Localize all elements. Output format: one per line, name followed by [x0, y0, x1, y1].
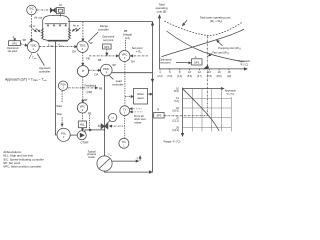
svg-text:18: 18	[228, 70, 231, 74]
chart1 curve fan cost W1	[167, 31, 245, 62]
svg-text:Air out: Air out	[34, 16, 42, 20]
svg-text:DA: DA	[72, 50, 76, 54]
box SP1 optimized range set point	[102, 35, 115, 49]
svg-text:FB: FB	[88, 111, 92, 115]
chart1 label Total tower operating cost with leader	[183, 16, 231, 26]
svg-text:VPC: VPC	[80, 105, 86, 109]
controller TDIC-1 (approach controller)	[23, 38, 40, 53]
label Load controller with leader	[109, 75, 124, 86]
svg-text:DA: DA	[95, 73, 99, 77]
wire SIC to fan motor (dash-dot)	[37, 9, 51, 11]
pipe basin downcomer	[56, 42, 58, 135]
relay P	[77, 66, 88, 77]
svg-text:(4.4): (4.4)	[177, 75, 182, 78]
wire TY to TIC (dashed)	[124, 116, 126, 138]
svg-text:CY: CY	[111, 118, 115, 120]
svg-text:16: 16	[218, 70, 221, 74]
wire SP1 box down to VPC line (dashed arrow)	[106, 49, 108, 55]
pipe header PDIC to riser	[112, 72, 152, 74]
svg-text:Load: Load	[116, 79, 122, 83]
junction node on feedback crossing	[82, 87, 83, 88]
svg-text:1: 1	[124, 113, 126, 115]
chart1 y-axis Total operating cost	[155, 3, 167, 69]
label Range controller with leader	[88, 24, 109, 42]
box SP1 optimized approach set point	[7, 35, 21, 53]
label abbreviations	[3, 150, 44, 169]
svg-text:CTWP: CTWP	[81, 141, 89, 145]
svg-text:Stop: Stop	[57, 112, 63, 116]
svg-text:FB: FB	[98, 58, 102, 62]
svg-text:TDIC: TDIC	[30, 43, 36, 47]
svg-text:controller: controller	[39, 69, 50, 73]
svg-text:VPC: Valve position controller: VPC: Valve position controller	[3, 165, 41, 169]
svg-text:(14.4): (14.4)	[172, 129, 179, 132]
chart1 tick marks and labels	[158, 69, 232, 78]
svg-text:2: 2	[63, 137, 65, 139]
svg-text:10: 10	[188, 70, 191, 74]
svg-text:set point: set point	[103, 38, 113, 42]
svg-text:TIC: TIC	[122, 140, 126, 144]
wire HLL to pump (dashed arrow)	[82, 128, 84, 131]
pipe PSL to pump to supply riser	[70, 129, 104, 135]
svg-text:PB: PB	[124, 29, 128, 33]
label Approach controller with leader	[37, 54, 51, 74]
svg-text:FB: FB	[99, 87, 103, 91]
svg-text:FB: FB	[86, 56, 90, 60]
svg-text:°F (°C): °F (°C)	[226, 92, 234, 96]
wire SP1 box to TDIC-1 (dash-dot)	[21, 44, 27, 46]
svg-text:controller: controller	[112, 82, 123, 86]
svg-text:users: users	[137, 96, 144, 100]
svg-text:14: 14	[208, 70, 211, 74]
svg-text:4: 4	[159, 70, 161, 74]
chart2 y-axis Range	[181, 88, 183, 137]
chart2 y tick labels	[172, 87, 179, 132]
relay TY (high selector)	[120, 106, 130, 116]
svg-text:Integral: Integral	[123, 33, 132, 37]
svg-text:A: A	[195, 55, 197, 59]
wire PSh start/stop down to pump (dashed)	[56, 91, 63, 126]
wire return pipe to TDIC-2 SP (dashed)	[82, 22, 84, 40]
controller SIC-1 (fan speed)	[27, 5, 37, 15]
label Air in (left) with arrows	[29, 24, 40, 32]
pump CTWP	[77, 131, 88, 145]
box SP1 on chart1 axis	[192, 55, 203, 65]
wire TDIC-1 to TDIC-2 (dash-dot)	[39, 46, 76, 48]
tower basin	[43, 39, 69, 41]
svg-text:SP: SP	[112, 63, 116, 67]
pipe HX outlet to process (arrow T)	[112, 156, 141, 162]
pipe hot water return (tower top to riser)	[68, 22, 153, 173]
valve V1 (user cooling valve, FC)	[98, 124, 108, 129]
svg-text:controller: controller	[98, 27, 109, 31]
fan motor M	[57, 3, 65, 17]
svg-text:(OR): (OR)	[87, 90, 93, 94]
svg-text:Twb: Twb	[32, 56, 37, 60]
limiter HLL	[78, 121, 86, 128]
svg-text:1: 1	[123, 145, 125, 147]
chart1 curve pumping cost W2	[162, 29, 245, 57]
louvers right wall	[68, 29, 71, 39]
svg-text:R: R	[157, 108, 159, 112]
svg-text:Total tower operating cost: Total tower operating cost	[200, 16, 231, 20]
svg-text:Feedback: Feedback	[85, 83, 97, 87]
svg-text:6: 6	[169, 70, 171, 74]
wire VPC-2 to HLL (dashed)	[82, 113, 84, 121]
svg-text:(2.2): (2.2)	[158, 75, 163, 78]
svg-text:Optimized: Optimized	[159, 57, 172, 61]
pipe supply riser with valve	[104, 76, 106, 156]
wire P to PDIC (dash-dot)	[89, 69, 101, 71]
svg-text:°F (°C): °F (°C)	[240, 62, 248, 66]
svg-text:P: P	[82, 69, 84, 73]
controller TIC	[119, 138, 129, 148]
svg-text:1: 1	[33, 48, 35, 51]
svg-text:1: 1	[106, 71, 108, 74]
svg-text:SP1: SP1	[104, 45, 110, 49]
wire SIC down to TDIC-1 (dashed)	[30, 15, 32, 40]
svg-text:(6.7): (6.7)	[197, 75, 202, 78]
svg-text:SP: SP	[23, 38, 27, 42]
svg-text:(8.9): (8.9)	[217, 75, 222, 78]
box Other users	[134, 89, 153, 105]
svg-text:M: M	[59, 3, 62, 7]
wire valve signal (dash-dot to actuator)	[110, 125, 125, 127]
chart1 label Optimized set point with arrow to SP1	[159, 57, 191, 64]
svg-text:Approach (ΔT) = Tctws − Twb: Approach (ΔT) = Tctws − Twb	[5, 77, 47, 82]
svg-text:SP3: SP3	[156, 114, 161, 118]
svg-text:only: only	[125, 36, 131, 40]
svg-text:(5.6): (5.6)	[174, 90, 179, 93]
label From all other user valves with dotted wires	[130, 108, 146, 125]
svg-text:(W1 + W2): (W1 + W2)	[210, 19, 222, 24]
cooling tower shell	[43, 15, 69, 39]
junction node pump discharge tee	[104, 129, 105, 130]
flow arrow at bottom corner	[149, 171, 152, 173]
svg-text:Range: Range	[100, 24, 108, 28]
fan F1 (propeller)	[50, 8, 55, 12]
controller VPC-1	[119, 51, 135, 64]
svg-text:Fan cost (W1): Fan cost (W1)	[212, 50, 229, 55]
chart1 x-axis Approach	[160, 59, 251, 70]
controller VPC-2 (pump speed)	[77, 103, 91, 130]
svg-text:12: 12	[198, 70, 201, 74]
svg-text:PSh: PSh	[61, 83, 66, 87]
svg-text:2: 2	[62, 88, 64, 90]
svg-text:Tin: Tin	[108, 153, 111, 157]
svg-text:Tctwr: Tctwr	[58, 44, 63, 48]
svg-text:SP: SP	[84, 98, 88, 102]
chart1 curve total cost dashed U	[165, 21, 244, 35]
wire TDIC-2 to P relay (dashed)	[82, 53, 84, 66]
svg-text:2: 2	[82, 48, 84, 51]
controller PDIC (load controller)	[95, 63, 117, 77]
valve actuator CY	[106, 113, 117, 124]
label Air in (right) with arrows	[73, 23, 81, 31]
wire Twb input (dash-dot diagonal)	[29, 54, 37, 60]
heat exchanger HX (typical process cooler)	[97, 153, 112, 171]
svg-text:SP: SP	[89, 41, 93, 45]
label Typical process cooler	[87, 149, 97, 159]
svg-text:(10): (10)	[227, 75, 231, 78]
wire branch to Other users box (dash-dot arrow)	[125, 96, 133, 98]
wire PSh feedback to load loop (dash-dot)	[68, 83, 103, 94]
wire VPC-1 output down (dashed)	[124, 62, 126, 106]
svg-text:VPC: VPC	[122, 53, 128, 57]
svg-text:valves: valves	[134, 120, 142, 124]
svg-text:2: 2	[82, 110, 84, 112]
svg-text:Pumping cost (W2): Pumping cost (W2)	[218, 46, 241, 51]
svg-text:1: 1	[124, 57, 126, 60]
svg-text:set point: set point	[8, 49, 18, 53]
wire to VPC-1 (dash-dot horizontal)	[89, 55, 117, 57]
svg-text:cost ($): cost ($)	[157, 10, 167, 14]
svg-text:(12.2): (12.2)	[172, 119, 179, 122]
svg-text:SP1: SP1	[194, 60, 200, 64]
svg-text:(3.3): (3.3)	[167, 75, 172, 78]
wire optimum range readout (dash-dot horizontal)	[165, 115, 208, 117]
svg-text:1: 1	[31, 10, 33, 14]
flow arrow up on riser	[151, 22, 153, 25]
svg-text:set point: set point	[160, 61, 170, 65]
svg-text:FC: FC	[98, 124, 102, 128]
svg-text:SIC: SIC	[29, 7, 34, 11]
wire set point R0 into VPC-1 (dash-dot)	[123, 29, 148, 57]
chart2 grid	[183, 89, 232, 132]
flow arrow down on riser	[151, 79, 153, 82]
svg-text:Tctws: Tctws	[48, 44, 53, 48]
svg-text:Air in: Air in	[29, 24, 36, 28]
svg-text:A: A	[13, 35, 15, 39]
box SP3 optimized range	[153, 108, 164, 118]
svg-text:HLL: HLL	[80, 123, 86, 127]
svg-text:Range °F (°C): Range °F (°C)	[164, 139, 181, 143]
chart1 label Pumping cost with leader	[217, 40, 241, 50]
svg-text:DA: DA	[131, 60, 135, 64]
svg-text:8: 8	[179, 70, 181, 74]
svg-text:PSL: PSL	[61, 132, 67, 136]
svg-text:(5.6): (5.6)	[187, 75, 192, 78]
spray header with nozzles	[45, 24, 68, 26]
wire P relay down to VPC-2 (dashed)	[82, 77, 88, 103]
svg-text:SP1: SP1	[12, 42, 17, 46]
svg-text:(10.0): (10.0)	[172, 110, 179, 113]
chart2 top axis Approach with arrow	[183, 88, 237, 97]
svg-text:cooler: cooler	[88, 155, 95, 159]
svg-text:T: T	[137, 157, 139, 161]
switch PSh (pump pressure, start/stop)	[58, 81, 67, 90]
svg-text:TDIC: TDIC	[79, 43, 85, 47]
chart2 curve range vs approach	[183, 89, 220, 131]
svg-text:TY: TY	[123, 108, 127, 112]
node Tctws tap (junction on approach signal)	[55, 46, 56, 47]
svg-text:Start: Start	[56, 104, 62, 108]
switch PSL	[57, 128, 70, 141]
svg-text:Air in: Air in	[73, 23, 80, 27]
wire optimum marker (dash-dot vertical through both charts)	[204, 36, 209, 116]
controller TDIC-2 (range controller)	[72, 41, 92, 54]
louvers left wall	[41, 29, 44, 39]
chart1 label Fan cost with leader	[209, 50, 229, 56]
svg-text:(7.8): (7.8)	[174, 100, 179, 103]
